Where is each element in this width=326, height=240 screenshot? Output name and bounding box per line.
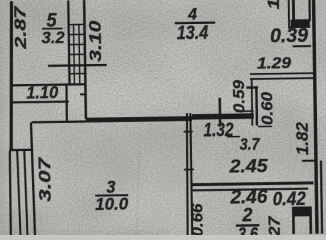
- svg-text:1.32: 1.32: [203, 120, 234, 141]
- svg-text:0.66: 0.66: [189, 203, 206, 235]
- svg-text:0.59: 0.59: [231, 80, 248, 113]
- svg-text:4: 4: [187, 4, 198, 23]
- svg-text:2.45: 2.45: [228, 156, 268, 177]
- svg-text:0.39: 0.39: [270, 25, 309, 48]
- svg-text:3: 3: [106, 177, 116, 197]
- svg-text:3.7: 3.7: [239, 135, 261, 154]
- svg-text:3.2: 3.2: [41, 28, 65, 47]
- svg-text:1.52: 1.52: [266, 0, 284, 9]
- svg-text:3.10: 3.10: [87, 20, 106, 62]
- svg-text:0.42: 0.42: [273, 189, 307, 210]
- svg-text:1.10: 1.10: [26, 82, 59, 102]
- svg-text:1.82: 1.82: [292, 121, 311, 155]
- svg-text:2.87: 2.87: [12, 5, 30, 50]
- svg-text:13.4: 13.4: [177, 23, 209, 44]
- svg-text:0.60: 0.60: [259, 92, 276, 125]
- svg-text:3.07: 3.07: [35, 156, 55, 202]
- svg-text:3.27: 3.27: [267, 215, 285, 235]
- svg-text:2: 2: [241, 205, 253, 226]
- svg-text:3.6: 3.6: [238, 224, 259, 235]
- svg-text:1.29: 1.29: [257, 55, 291, 73]
